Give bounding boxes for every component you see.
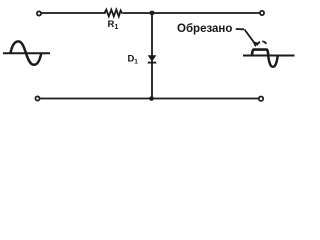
svg-text:R: R	[108, 19, 115, 30]
svg-text:1: 1	[115, 24, 119, 31]
svg-text:Обрезано: Обрезано	[177, 23, 232, 35]
svg-text:1: 1	[134, 59, 138, 66]
